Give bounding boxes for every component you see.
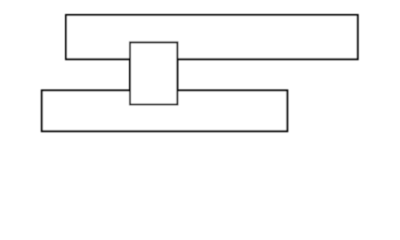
bottom rectangle [42, 90, 287, 131]
middle small rectangle (overlapping both) [130, 42, 177, 104]
top rectangle [66, 15, 358, 59]
